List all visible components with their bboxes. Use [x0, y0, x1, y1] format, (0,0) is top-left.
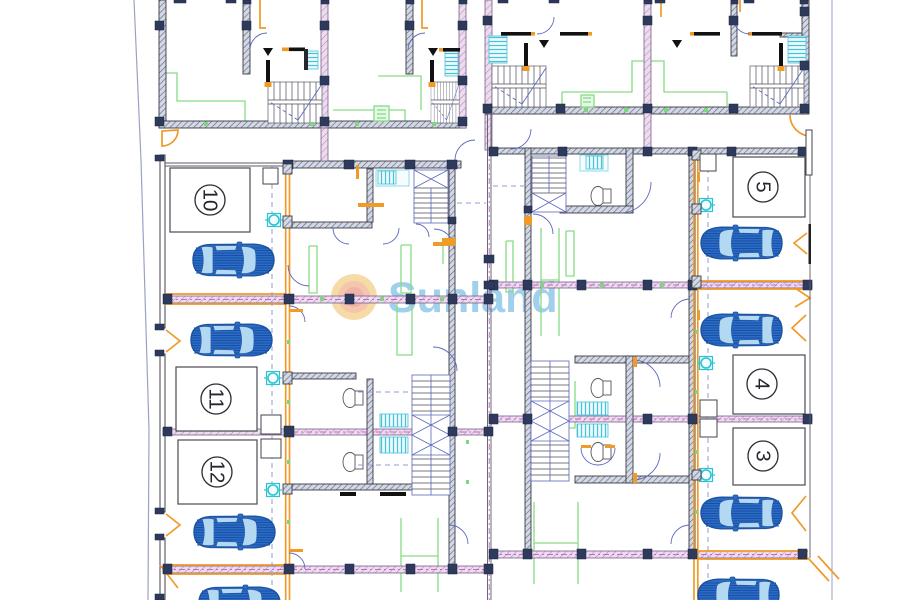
- svg-text:3: 3: [752, 450, 775, 461]
- svg-text:10: 10: [199, 189, 222, 212]
- svg-text:5: 5: [752, 181, 775, 192]
- svg-text:11: 11: [205, 388, 228, 409]
- svg-text:12: 12: [206, 461, 229, 484]
- svg-text:4: 4: [751, 378, 774, 389]
